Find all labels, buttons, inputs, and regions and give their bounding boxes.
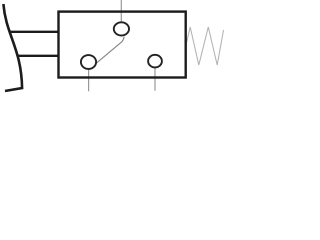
wire bottom-left lead [88,63,90,91]
wire top lead [120,0,122,26]
wire lower linkage [17,55,59,57]
spring (zigzag) [186,27,223,65]
wire upper linkage [10,31,59,33]
wire bottom-right lead [154,60,156,91]
switch body S1 [59,12,186,78]
terminal bottom-left circle [81,55,96,69]
contact blade [96,37,124,64]
terminal bottom-right circle [148,55,162,68]
lever actuator arm [3,4,22,91]
terminal top circle [114,22,129,35]
